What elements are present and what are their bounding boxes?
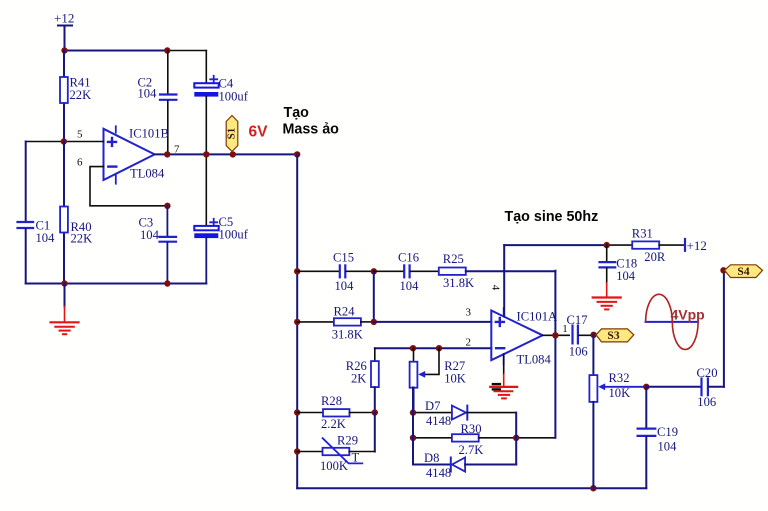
svg-text:IC101B: IC101B	[129, 127, 169, 141]
svg-text:D7: D7	[425, 399, 440, 413]
svg-text:104: 104	[658, 439, 678, 453]
junction bottom rail / C3	[164, 280, 170, 286]
wire bottom rail (sine section)	[297, 487, 646, 489]
capacitor C1	[18, 142, 34, 284]
wire 6V rail down left side of sine section	[296, 154, 298, 488]
junction R32 wiper node	[643, 384, 649, 390]
net flag S1	[226, 116, 238, 152]
pin number 6	[77, 157, 83, 169]
junction pin6 feedback at C3	[164, 203, 170, 209]
junction C15/C16 node	[371, 268, 377, 274]
sine wave symbol	[646, 294, 699, 349]
junction output / S1 flag	[230, 151, 236, 157]
power +12 symbol top-left	[54, 11, 74, 26]
label R40 value	[71, 220, 93, 246]
svg-text:Tạo sine 50hz: Tạo sine 50hz	[505, 209, 599, 225]
svg-text:100uf: 100uf	[219, 227, 249, 241]
label C1 value	[36, 219, 56, 246]
label C16 value	[398, 251, 419, 293]
svg-text:10K: 10K	[444, 371, 466, 385]
capacitor C4 (electrolytic)	[194, 76, 218, 155]
svg-text:3: 3	[466, 307, 472, 319]
label R24 value	[332, 305, 363, 342]
junction output / C2-C3	[164, 151, 170, 157]
ground under C18	[593, 283, 621, 309]
pin number 2	[466, 337, 472, 349]
label R28 value	[321, 394, 346, 431]
junction bottom rail / R40 ground	[61, 280, 67, 286]
junction 6V rail / R28	[294, 409, 300, 415]
potentiometer R27	[410, 348, 439, 412]
op-amp U IC101A	[491, 308, 542, 364]
wire pin5 input	[26, 141, 104, 143]
wire top rail to C4 branch	[205, 51, 207, 84]
label IC101A	[517, 310, 558, 367]
wire pin2	[375, 347, 492, 349]
svg-text:TL084: TL084	[130, 167, 165, 181]
thermistor R29	[297, 438, 375, 463]
svg-text:R31: R31	[632, 227, 653, 241]
label R32 value	[609, 371, 631, 400]
wire R31 row from pin4	[504, 244, 632, 246]
svg-text:D8: D8	[424, 451, 439, 465]
svg-text:104: 104	[400, 279, 420, 293]
label R30 value	[459, 422, 484, 457]
net flag S3	[596, 329, 634, 342]
capacitor C3	[160, 206, 177, 284]
junction output corner to sine section	[294, 151, 300, 157]
junction pin2 / R27 top	[410, 345, 416, 351]
junction 6V rail / C15	[294, 268, 300, 274]
junction output / C4-C5	[203, 151, 209, 157]
svg-text:R24: R24	[334, 305, 356, 319]
svg-text:S3: S3	[607, 330, 619, 342]
label R29 value	[320, 434, 360, 473]
svg-text:Tạo: Tạo	[284, 105, 310, 121]
label R41 value	[70, 76, 92, 103]
svg-text:31.8K: 31.8K	[443, 276, 474, 290]
svg-text:+12: +12	[54, 11, 74, 26]
capacitor C19	[638, 387, 656, 488]
diode D8	[413, 458, 516, 472]
svg-text:6V: 6V	[249, 124, 269, 141]
wire from +12 to top rail	[64, 27, 66, 51]
label D8 value	[424, 451, 451, 480]
svg-text:2.2K: 2.2K	[321, 417, 346, 431]
label C15 value	[333, 251, 354, 293]
svg-text:22K: 22K	[70, 88, 92, 102]
wire pin3	[374, 321, 492, 323]
label C2 value	[138, 75, 158, 100]
label R27 value	[444, 359, 466, 385]
wire output of IC101B (6V virtual ground node)	[155, 153, 298, 155]
svg-text:104: 104	[616, 269, 636, 283]
svg-text:R32: R32	[609, 371, 630, 385]
svg-text:C4: C4	[219, 76, 234, 90]
junction R28 right / R26 chain	[372, 409, 378, 415]
svg-text:104: 104	[140, 228, 160, 242]
resistor R24	[297, 318, 374, 325]
label 4Vpp	[671, 307, 705, 323]
svg-text:4Vpp: 4Vpp	[671, 307, 705, 323]
junction 6V rail / R29	[294, 448, 300, 454]
capacitor C18	[600, 245, 616, 283]
junction output IC101A / feedback	[552, 332, 558, 338]
svg-text:2K: 2K	[351, 371, 366, 385]
capacitor C15	[297, 265, 374, 277]
wire pin4 power	[503, 245, 505, 316]
capacitor C5 (electrolytic)	[194, 154, 218, 283]
label C19 value	[657, 425, 678, 453]
svg-text:6: 6	[77, 157, 83, 169]
svg-text:5: 5	[77, 129, 83, 141]
svg-text:C19: C19	[657, 425, 678, 439]
diode D7	[413, 406, 516, 420]
svg-text:20R: 20R	[644, 250, 666, 264]
capacitor C20	[646, 379, 724, 396]
label R25 value	[443, 252, 474, 290]
junction pin5 node	[61, 138, 67, 144]
junction D7 anode	[410, 409, 416, 415]
junction at top rail / R41	[61, 47, 67, 53]
junction R30 right	[513, 435, 519, 441]
wire diode network left vertical	[412, 388, 414, 465]
svg-text:4: 4	[489, 285, 501, 291]
label IC101B	[129, 127, 169, 181]
svg-text:T: T	[352, 451, 360, 465]
capacitor C16	[374, 265, 439, 277]
wire bottom rail (left block)	[26, 283, 207, 285]
wire S3 node down to R32	[592, 335, 594, 375]
svg-text:2.7K: 2.7K	[459, 443, 484, 457]
svg-text:IC101A: IC101A	[517, 310, 558, 324]
label R31 value	[632, 227, 666, 265]
label R26 value	[346, 359, 367, 385]
junction R30 left	[410, 435, 416, 441]
resistor R26	[371, 348, 379, 412]
svg-text:S4: S4	[737, 266, 749, 278]
svg-text:106: 106	[697, 395, 716, 409]
wire feedback vertical from R25 to output and R30	[554, 271, 556, 438]
svg-text:R25: R25	[443, 252, 464, 266]
svg-text:100K: 100K	[320, 459, 348, 473]
wire C20 up to S4	[723, 270, 725, 387]
label C4 value	[219, 76, 249, 103]
svg-text:100uf: 100uf	[219, 89, 249, 103]
svg-text:TL084: TL084	[517, 353, 552, 367]
svg-text:+12: +12	[687, 238, 707, 253]
pin number 4 (rotated)	[489, 285, 501, 291]
label Tao sine 50hz	[505, 209, 599, 225]
junction pin2 / R27 wiper	[436, 345, 442, 351]
power +12 (right)	[685, 238, 707, 253]
svg-text:R30: R30	[461, 422, 482, 436]
junction at top rail / C2	[164, 47, 170, 53]
svg-text:31.8K: 31.8K	[332, 327, 363, 341]
svg-text:S1: S1	[226, 128, 238, 140]
junction bottom rail / R32	[590, 485, 596, 491]
svg-text:4148: 4148	[426, 466, 451, 480]
svg-text:106: 106	[569, 344, 588, 358]
label D7 value	[425, 399, 451, 428]
pin number 5	[77, 129, 83, 141]
capacitor C17	[573, 326, 594, 344]
junction R24 / pin3	[371, 319, 377, 325]
label C5 value	[219, 215, 249, 241]
junction S3 node	[590, 332, 596, 338]
resistor R25	[439, 268, 556, 275]
svg-text:22K: 22K	[71, 232, 93, 246]
wire C15-C16 node down to R24	[373, 271, 375, 322]
ground (left block)	[51, 284, 79, 335]
wire output IC101A row	[543, 334, 570, 336]
label C3 value	[139, 216, 160, 243]
svg-text:2: 2	[466, 337, 472, 349]
pin number 1	[562, 323, 568, 335]
svg-text:104: 104	[138, 87, 158, 101]
label C17 value	[567, 313, 588, 358]
wire pin6 feedback loop	[90, 167, 167, 206]
capacitor C2	[160, 51, 176, 155]
net flag S4	[725, 265, 763, 278]
svg-text:C20: C20	[697, 366, 718, 380]
resistor R30	[413, 434, 555, 441]
svg-text:104: 104	[335, 279, 355, 293]
wire R26-R28-R29 vertical	[374, 413, 376, 452]
wire top rail	[65, 50, 207, 52]
svg-text:C15: C15	[333, 251, 354, 265]
potentiometer R32	[589, 375, 646, 488]
svg-text:R29: R29	[337, 434, 358, 448]
label C18 value	[616, 256, 637, 283]
svg-text:4148: 4148	[426, 414, 451, 428]
label Tao Mass ao	[283, 105, 340, 138]
junction S4 node	[720, 267, 726, 273]
svg-text:Mass ảo: Mass ảo	[283, 122, 340, 138]
pin number 3	[466, 307, 472, 319]
svg-text:C16: C16	[398, 251, 419, 265]
svg-text:R28: R28	[321, 394, 342, 408]
op-amp U IC101B	[104, 126, 155, 183]
resistor R41	[60, 51, 68, 142]
resistor R31	[632, 241, 685, 248]
ground under IC101A	[490, 354, 517, 398]
svg-text:C17: C17	[567, 313, 588, 327]
pin number 7	[174, 144, 180, 156]
svg-text:10K: 10K	[609, 386, 631, 400]
label 6V	[249, 124, 269, 141]
svg-text:104: 104	[36, 231, 56, 245]
junction R31 row / C18	[604, 242, 610, 248]
wire diode network right vertical	[515, 413, 517, 465]
junction 6V rail / R24	[294, 319, 300, 325]
resistor R40	[60, 142, 68, 284]
label C20 value	[697, 366, 718, 409]
resistor R28	[297, 409, 375, 416]
